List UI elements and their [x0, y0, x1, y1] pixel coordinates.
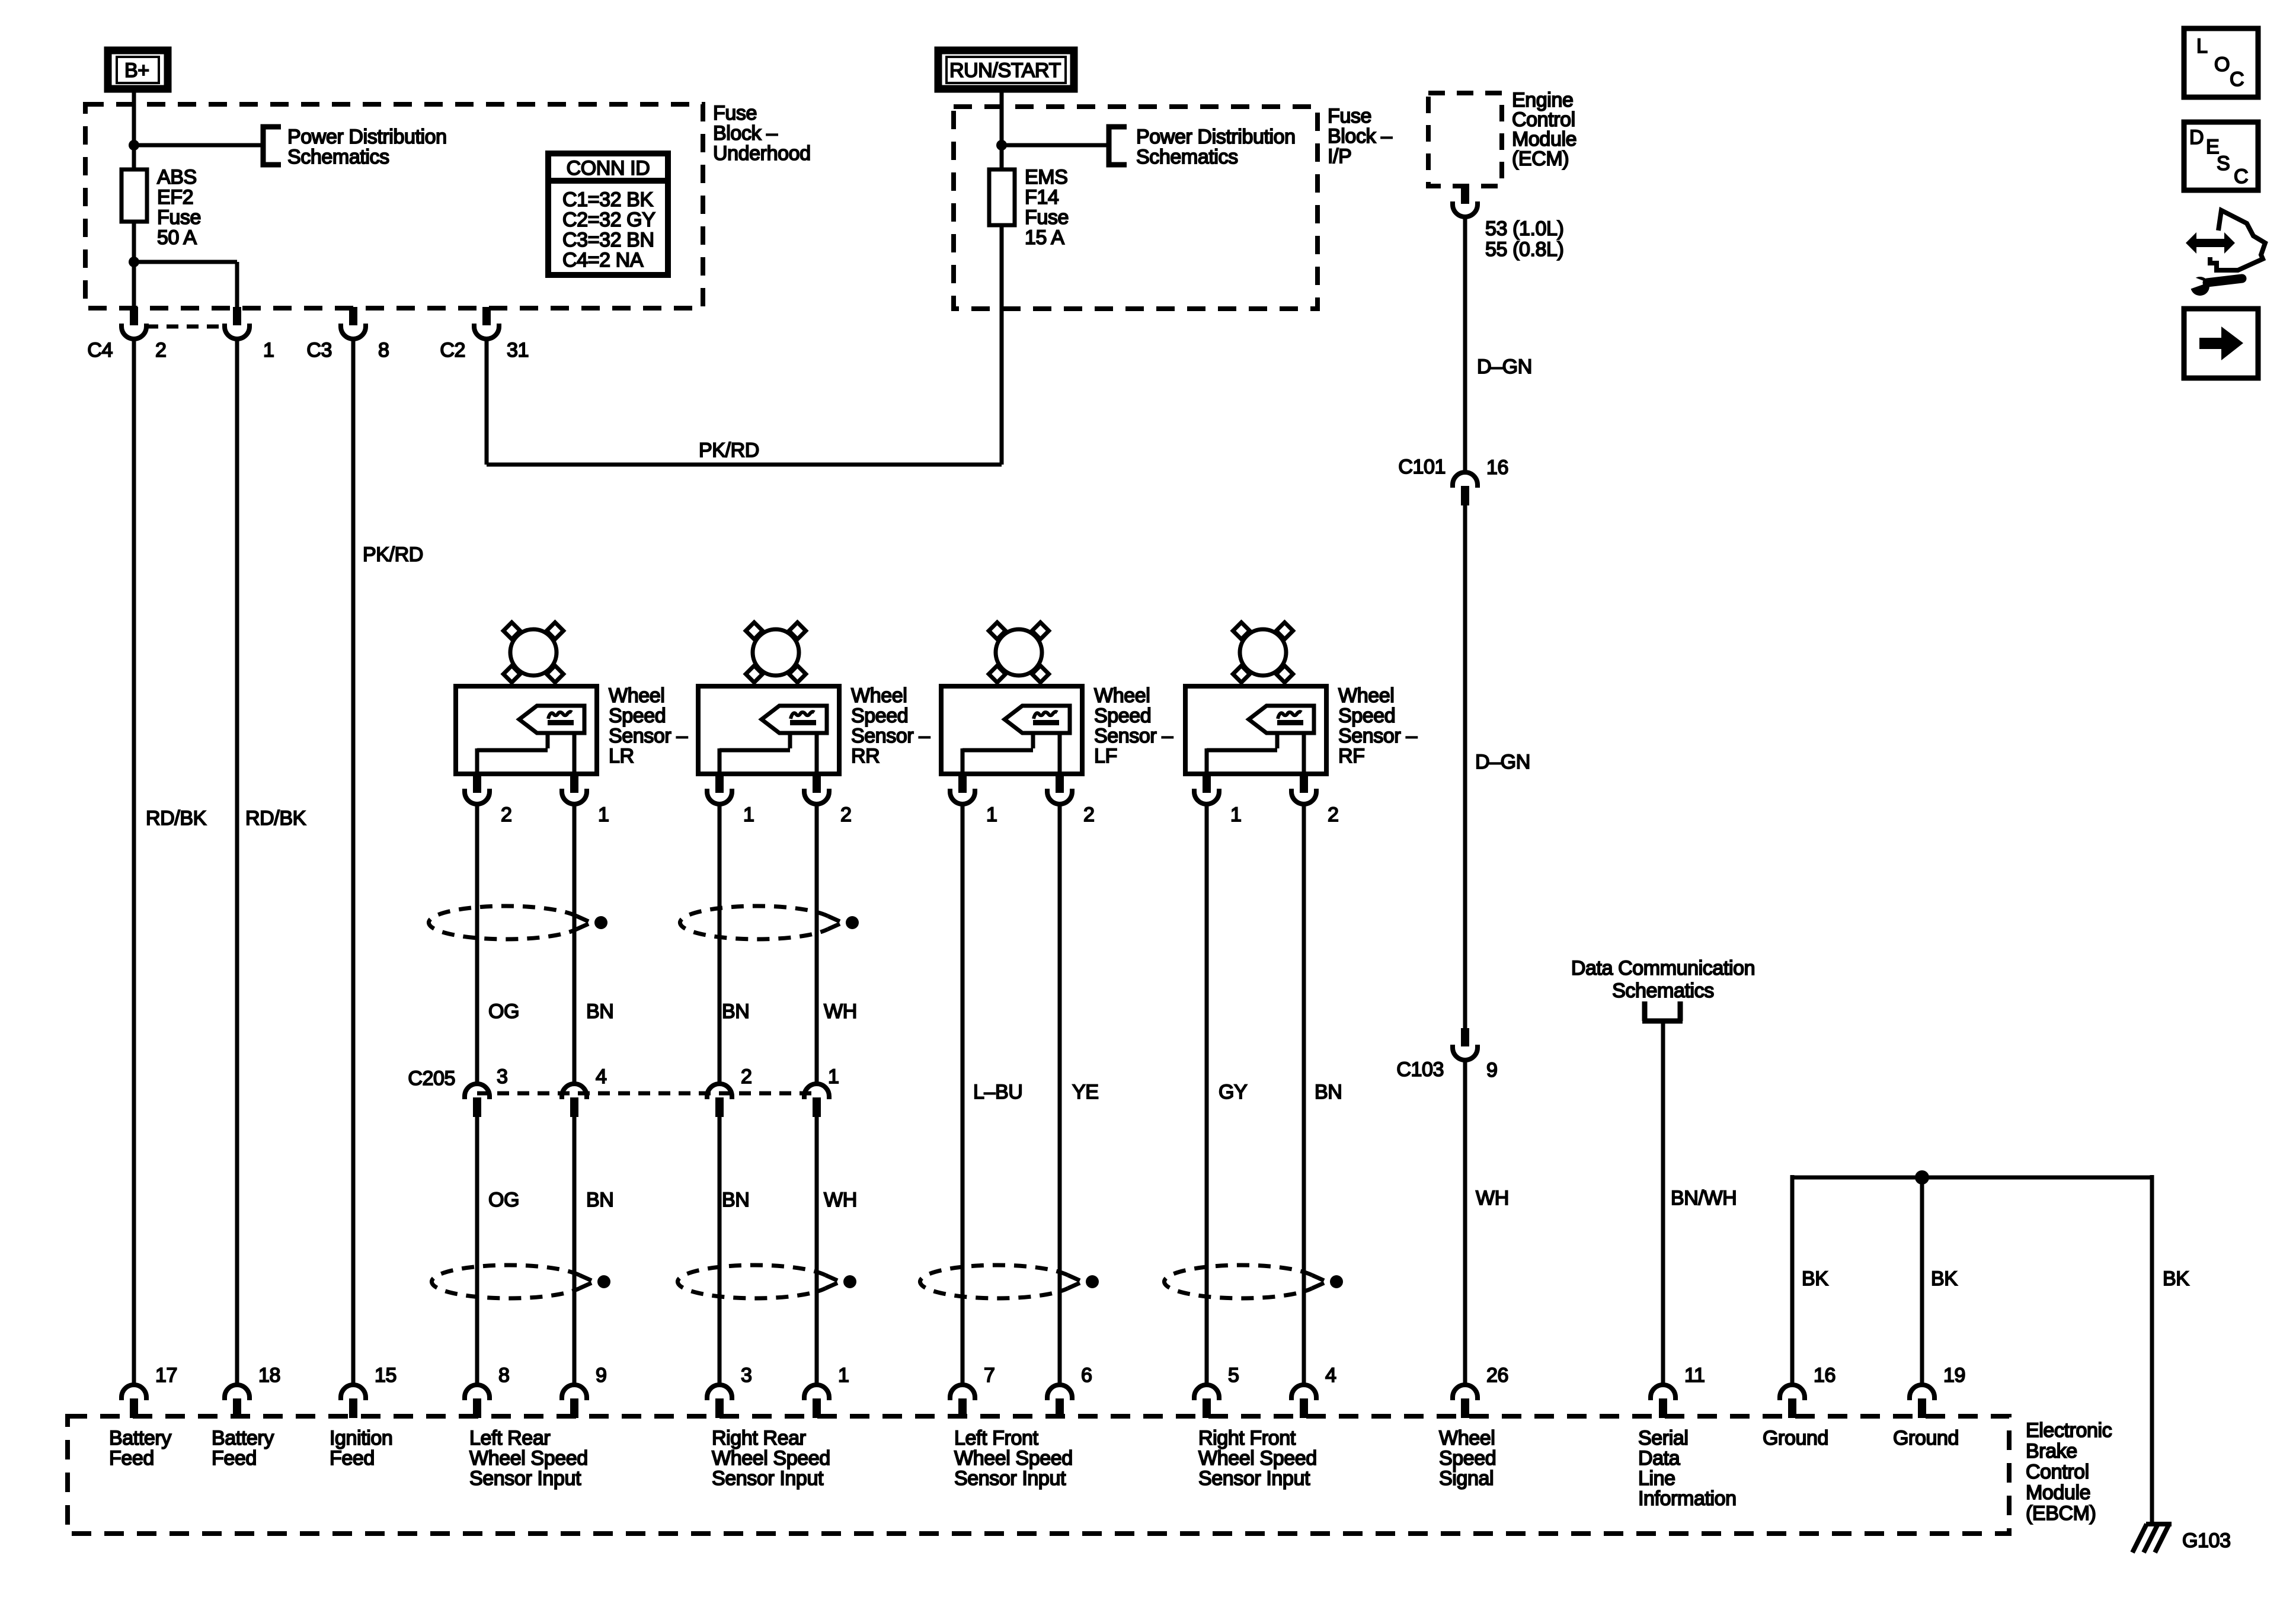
- svg-text:C2=32 GY: C2=32 GY: [562, 209, 655, 231]
- svg-text:Sensor –: Sensor –: [609, 725, 687, 747]
- svg-text:31: 31: [507, 339, 529, 361]
- svg-text:2: 2: [1083, 804, 1095, 826]
- svg-text:Signal: Signal: [1439, 1467, 1494, 1490]
- svg-text:Feed: Feed: [212, 1447, 257, 1470]
- svg-text:4: 4: [1325, 1364, 1336, 1387]
- svg-text:2: 2: [501, 804, 512, 826]
- svg-text:Schematics: Schematics: [287, 146, 389, 168]
- svg-text:OG: OG: [488, 1189, 519, 1211]
- svg-text:F14: F14: [1025, 186, 1059, 209]
- svg-text:C1=32 BK: C1=32 BK: [562, 188, 653, 211]
- svg-text:Ground: Ground: [1893, 1427, 1959, 1449]
- svg-text:L–BU: L–BU: [973, 1081, 1022, 1103]
- svg-text:Wheel: Wheel: [609, 684, 664, 707]
- svg-text:(EBCM): (EBCM): [2026, 1502, 2096, 1525]
- svg-text:Wheel: Wheel: [1439, 1427, 1495, 1449]
- svg-text:Right Front: Right Front: [1198, 1427, 1296, 1449]
- svg-text:O: O: [2214, 53, 2230, 76]
- svg-text:Right Rear: Right Rear: [712, 1427, 806, 1449]
- svg-text:2: 2: [155, 339, 167, 361]
- svg-text:2: 2: [1328, 804, 1339, 826]
- svg-text:19: 19: [1943, 1364, 1965, 1387]
- svg-text:2: 2: [840, 804, 852, 826]
- svg-text:Speed: Speed: [1094, 705, 1151, 727]
- svg-text:5: 5: [1228, 1364, 1239, 1387]
- svg-text:Speed: Speed: [1439, 1447, 1496, 1470]
- svg-text:Brake: Brake: [2026, 1440, 2077, 1462]
- svg-text:WH: WH: [1476, 1187, 1509, 1209]
- svg-text:C: C: [2234, 165, 2248, 188]
- svg-text:Schematics: Schematics: [1612, 980, 1714, 1002]
- svg-text:BK: BK: [1931, 1267, 1958, 1290]
- svg-text:C101: C101: [1398, 456, 1446, 478]
- svg-text:3: 3: [497, 1065, 508, 1088]
- svg-text:Underhood: Underhood: [713, 142, 811, 165]
- svg-text:Feed: Feed: [109, 1447, 154, 1470]
- svg-text:Sensor Input: Sensor Input: [1198, 1467, 1310, 1490]
- svg-text:Left Rear: Left Rear: [469, 1427, 550, 1449]
- svg-text:1: 1: [838, 1364, 849, 1387]
- svg-text:Ground: Ground: [1763, 1427, 1828, 1449]
- svg-text:Wheel Speed: Wheel Speed: [469, 1447, 588, 1470]
- svg-text:D–GN: D–GN: [1475, 751, 1530, 773]
- svg-text:Wheel Speed: Wheel Speed: [712, 1447, 830, 1470]
- svg-text:OG: OG: [488, 1000, 519, 1023]
- svg-text:Wheel: Wheel: [1094, 684, 1150, 707]
- svg-text:BN: BN: [722, 1000, 749, 1023]
- svg-text:7: 7: [984, 1364, 995, 1387]
- svg-text:Ignition: Ignition: [330, 1427, 392, 1449]
- svg-text:Fuse: Fuse: [1025, 206, 1069, 229]
- svg-text:15: 15: [375, 1364, 396, 1387]
- svg-text:C4=2 NA: C4=2 NA: [562, 249, 644, 271]
- svg-text:PK/RD: PK/RD: [363, 543, 423, 566]
- svg-text:1: 1: [1230, 804, 1242, 826]
- svg-text:WH: WH: [824, 1189, 857, 1211]
- svg-text:1: 1: [263, 339, 274, 361]
- svg-text:Sensor Input: Sensor Input: [469, 1467, 581, 1490]
- svg-text:Wheel: Wheel: [1338, 684, 1394, 707]
- svg-text:1: 1: [598, 804, 609, 826]
- svg-text:RD/BK: RD/BK: [245, 807, 306, 830]
- svg-text:L: L: [2196, 35, 2208, 57]
- svg-text:C103: C103: [1396, 1058, 1444, 1081]
- svg-text:Speed: Speed: [851, 705, 908, 727]
- svg-text:3: 3: [741, 1364, 752, 1387]
- svg-text:Fuse: Fuse: [1328, 105, 1371, 127]
- svg-text:Speed: Speed: [1338, 705, 1395, 727]
- svg-text:18: 18: [258, 1364, 280, 1387]
- svg-text:Left Front: Left Front: [954, 1427, 1038, 1449]
- svg-text:G103: G103: [2182, 1529, 2231, 1552]
- svg-text:YE: YE: [1072, 1081, 1099, 1103]
- svg-text:EF2: EF2: [157, 186, 193, 209]
- svg-text:Fuse: Fuse: [157, 206, 201, 229]
- svg-text:BK: BK: [1802, 1267, 1828, 1290]
- svg-text:Serial: Serial: [1638, 1427, 1689, 1449]
- svg-text:C3=32 BN: C3=32 BN: [562, 229, 654, 251]
- svg-text:Wheel Speed: Wheel Speed: [1198, 1447, 1317, 1470]
- svg-text:C3: C3: [306, 339, 332, 361]
- svg-text:Data: Data: [1638, 1447, 1680, 1470]
- svg-text:BN: BN: [586, 1189, 613, 1211]
- svg-text:Block –: Block –: [1328, 125, 1392, 148]
- svg-text:26: 26: [1486, 1364, 1508, 1387]
- svg-text:15 A: 15 A: [1025, 226, 1064, 249]
- svg-text:8: 8: [498, 1364, 510, 1387]
- svg-text:Electronic: Electronic: [2026, 1419, 2112, 1442]
- svg-text:1: 1: [828, 1065, 839, 1088]
- svg-text:CONN ID: CONN ID: [567, 157, 650, 180]
- svg-text:Speed: Speed: [609, 705, 666, 727]
- svg-text:8: 8: [378, 339, 389, 361]
- svg-text:RR: RR: [851, 745, 880, 767]
- svg-text:LF: LF: [1094, 745, 1117, 767]
- svg-text:B+: B+: [124, 59, 149, 82]
- svg-text:LR: LR: [609, 745, 634, 767]
- svg-text:Line: Line: [1638, 1467, 1675, 1490]
- svg-text:C205: C205: [408, 1067, 455, 1090]
- svg-text:C4: C4: [87, 339, 113, 361]
- svg-text:Information: Information: [1638, 1487, 1737, 1510]
- svg-text:(ECM): (ECM): [1512, 148, 1569, 170]
- svg-text:RF: RF: [1338, 745, 1365, 767]
- svg-text:Battery: Battery: [212, 1427, 274, 1449]
- svg-text:RUN/START: RUN/START: [949, 59, 1061, 82]
- svg-text:11: 11: [1684, 1364, 1705, 1387]
- svg-text:Sensor –: Sensor –: [1094, 725, 1173, 747]
- svg-text:Control: Control: [2026, 1461, 2089, 1483]
- svg-text:50 A: 50 A: [157, 226, 197, 249]
- svg-text:D–GN: D–GN: [1477, 356, 1532, 378]
- svg-text:BN: BN: [1315, 1081, 1342, 1103]
- svg-text:GY: GY: [1219, 1081, 1247, 1103]
- svg-text:WH: WH: [824, 1000, 857, 1023]
- svg-text:Wheel Speed: Wheel Speed: [954, 1447, 1073, 1470]
- svg-text:Schematics: Schematics: [1136, 146, 1238, 168]
- svg-text:BN: BN: [586, 1000, 613, 1023]
- svg-text:Sensor –: Sensor –: [1338, 725, 1417, 747]
- svg-text:C2: C2: [440, 339, 465, 361]
- svg-text:2: 2: [741, 1065, 752, 1088]
- svg-text:16: 16: [1486, 456, 1508, 479]
- svg-text:BN: BN: [722, 1189, 749, 1211]
- svg-text:C: C: [2230, 68, 2244, 91]
- svg-text:55 (0.8L): 55 (0.8L): [1485, 238, 1563, 261]
- svg-text:4: 4: [596, 1065, 607, 1088]
- svg-text:Fuse: Fuse: [713, 102, 757, 124]
- svg-text:RD/BK: RD/BK: [146, 807, 207, 830]
- svg-text:Power Distribution: Power Distribution: [1136, 126, 1296, 148]
- svg-text:9: 9: [596, 1364, 607, 1387]
- svg-text:I/P: I/P: [1328, 145, 1351, 168]
- svg-text:BN/WH: BN/WH: [1671, 1187, 1737, 1209]
- svg-text:53 (1.0L): 53 (1.0L): [1485, 217, 1563, 240]
- svg-text:S: S: [2217, 152, 2230, 175]
- svg-text:ABS: ABS: [157, 166, 197, 188]
- svg-text:Module: Module: [2026, 1481, 2090, 1504]
- svg-text:17: 17: [155, 1364, 177, 1387]
- svg-text:Power Distribution: Power Distribution: [287, 126, 447, 148]
- svg-text:16: 16: [1814, 1364, 1835, 1387]
- svg-text:Block –: Block –: [713, 122, 778, 145]
- svg-text:EMS: EMS: [1025, 166, 1067, 188]
- svg-text:Feed: Feed: [330, 1447, 375, 1470]
- svg-text:Wheel: Wheel: [851, 684, 907, 707]
- svg-text:1: 1: [743, 804, 754, 826]
- svg-text:Sensor Input: Sensor Input: [712, 1467, 824, 1490]
- svg-text:BK: BK: [2163, 1267, 2189, 1290]
- svg-text:1: 1: [986, 804, 997, 826]
- svg-text:PK/RD: PK/RD: [699, 439, 759, 462]
- svg-text:Sensor –: Sensor –: [851, 725, 930, 747]
- svg-text:9: 9: [1486, 1059, 1498, 1081]
- svg-text:Battery: Battery: [109, 1427, 171, 1449]
- svg-text:Data Communication: Data Communication: [1571, 957, 1755, 980]
- svg-text:D: D: [2189, 126, 2204, 149]
- svg-text:Sensor Input: Sensor Input: [954, 1467, 1066, 1490]
- svg-text:6: 6: [1081, 1364, 1092, 1387]
